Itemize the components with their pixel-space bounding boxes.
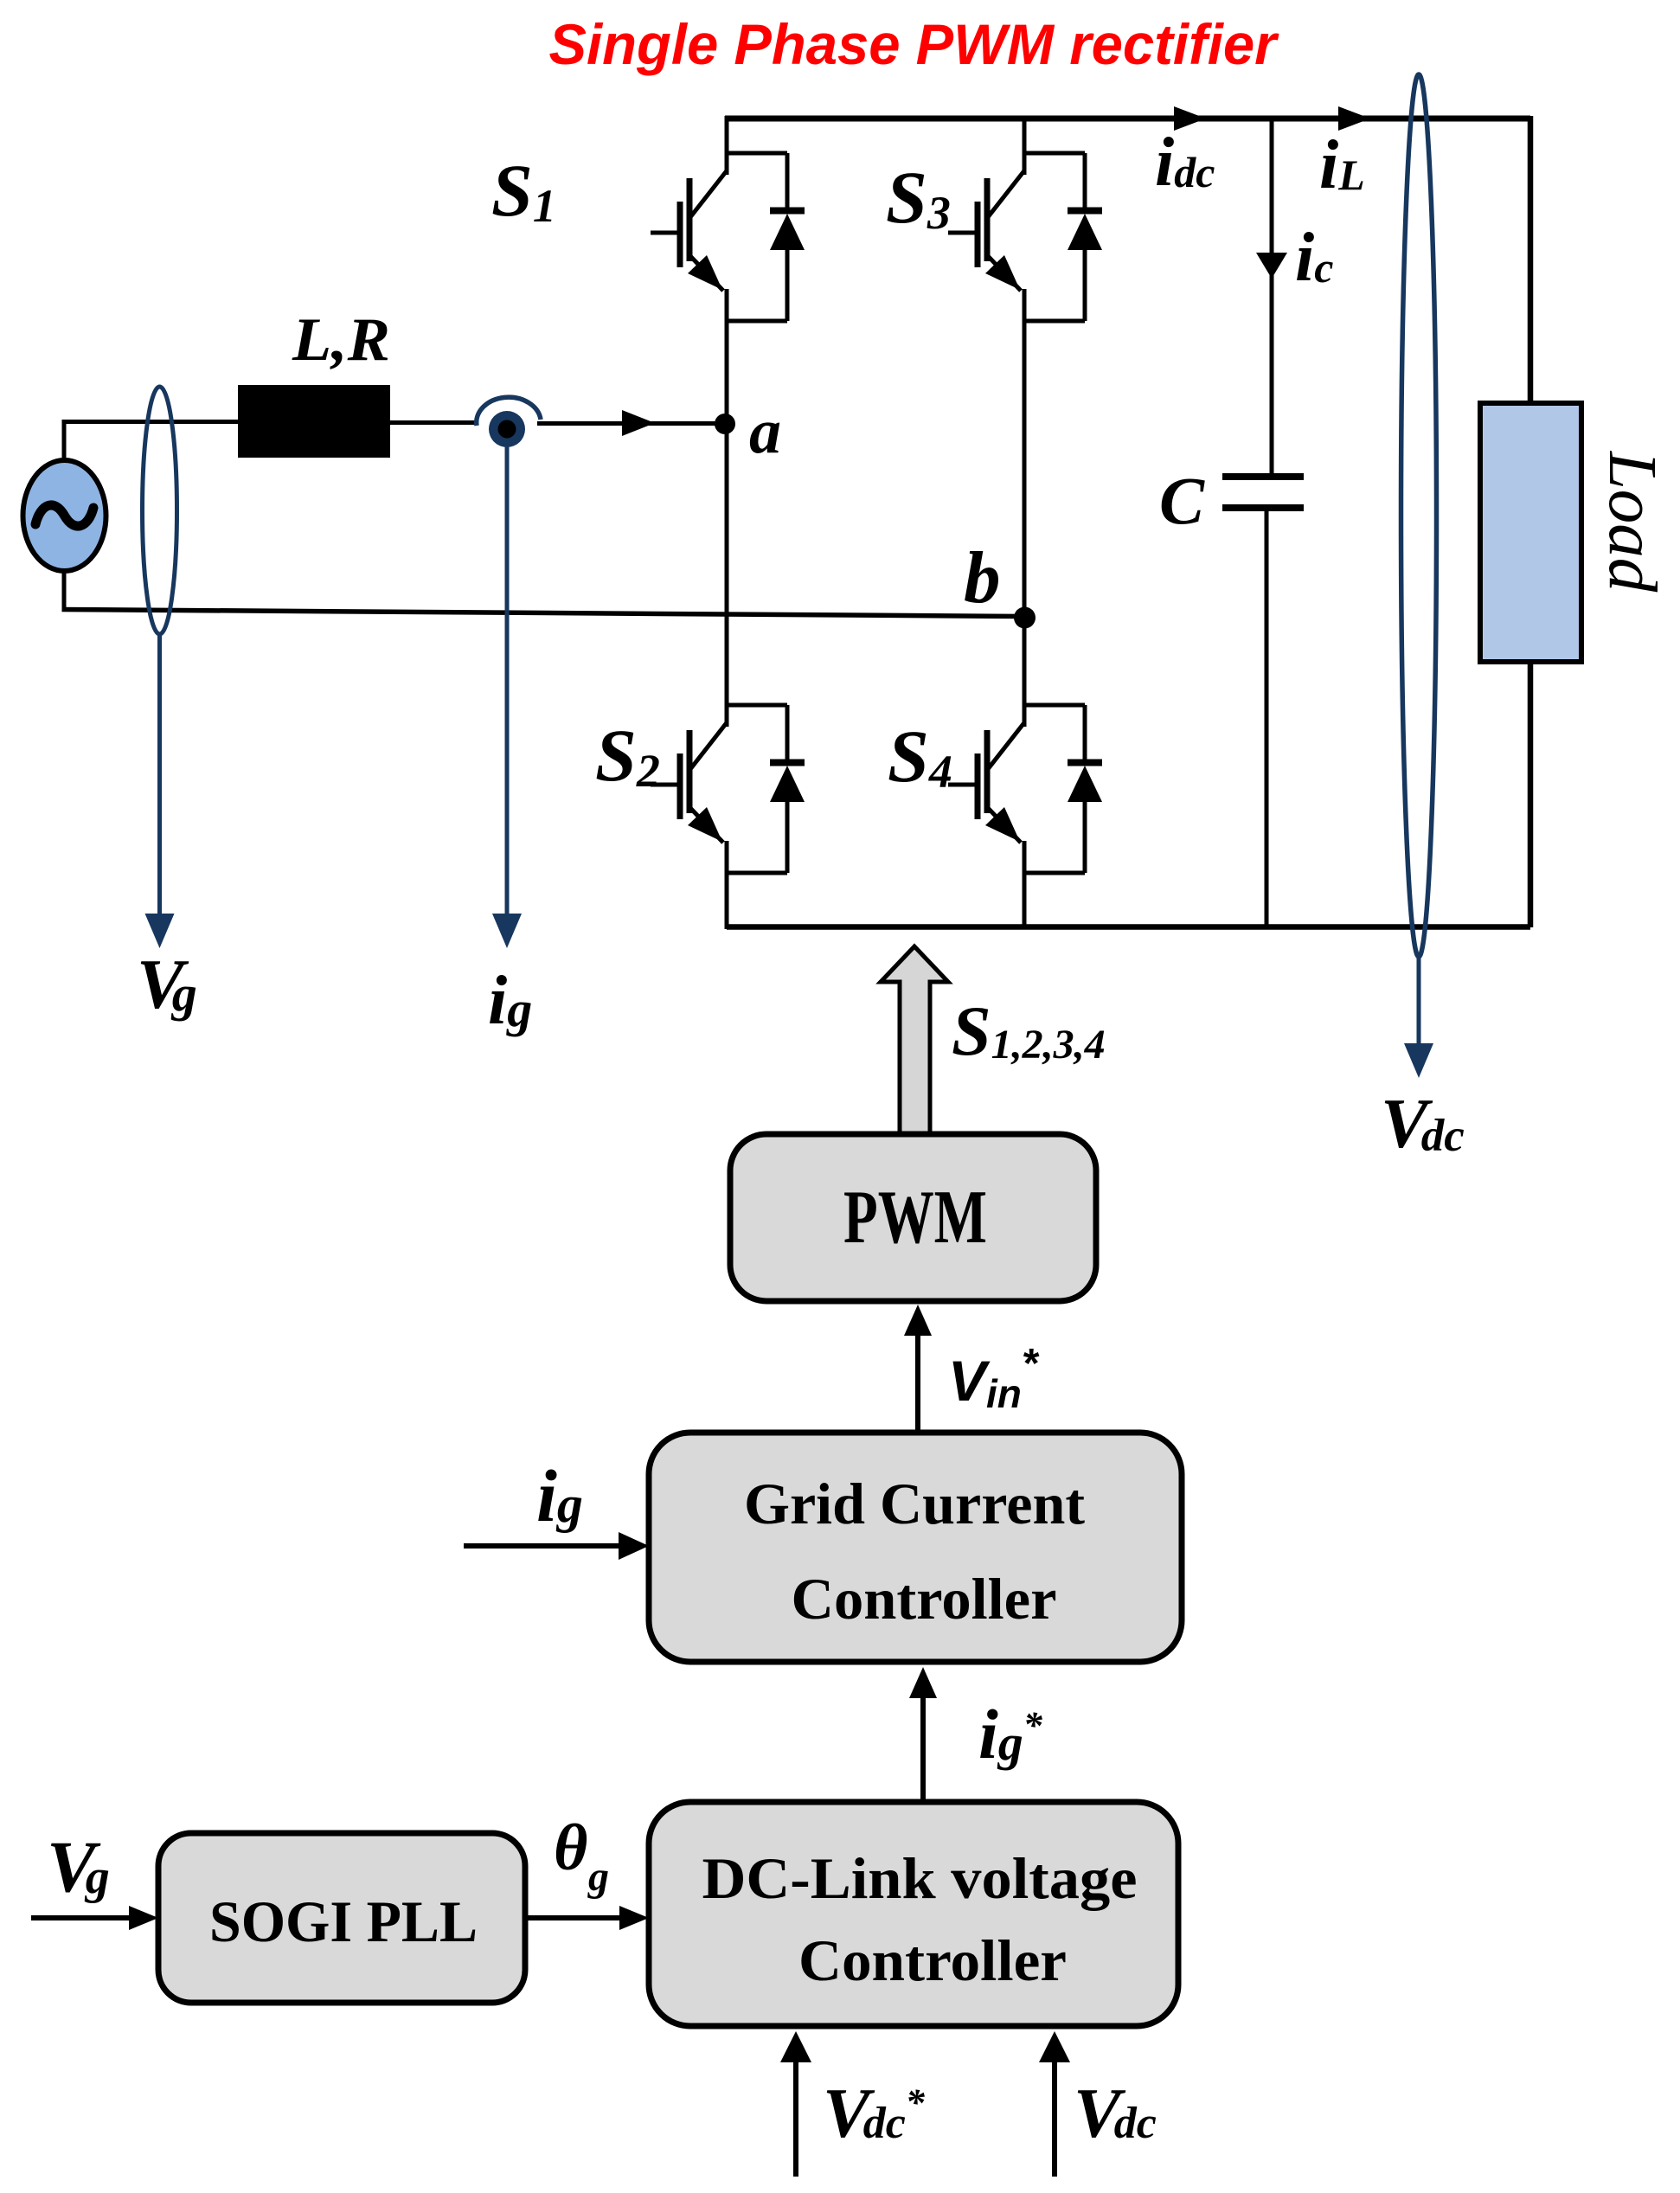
wire: left bridge leg upper — [725, 116, 729, 175]
wire: dc-link capacitor branch — [1270, 119, 1274, 476]
svg-text:θ: θ — [554, 1811, 587, 1884]
svg-text:Vdc: Vdc — [1074, 2074, 1157, 2152]
svg-text:Controller: Controller — [792, 1566, 1057, 1632]
wire: top AC line from source to inductor — [62, 420, 240, 424]
svg-text:Vin*: Vin* — [948, 1341, 1040, 1416]
node a — [715, 414, 735, 434]
wire: left bridge leg lower — [725, 841, 729, 929]
arrow Vin* from current controller to PWM — [915, 1334, 920, 1433]
arrow Vdc feedback input — [1052, 2061, 1057, 2177]
current sensor on grid current — [477, 397, 541, 447]
probe ellipse for Vg measurement — [143, 387, 177, 634]
svg-text:ig: ig — [536, 1454, 583, 1537]
wire: top bus right corner down to load — [1528, 116, 1534, 404]
svg-text:Vdc: Vdc — [1381, 1084, 1465, 1163]
svg-text:ig: ig — [488, 963, 532, 1039]
capacitor C plates — [1222, 477, 1304, 508]
Grid Current Controller block — [649, 1433, 1182, 1662]
inductor L,R — [238, 385, 390, 458]
svg-text:DC-Link voltage: DC-Link voltage — [702, 1845, 1138, 1911]
DC-Link voltage Controller block — [649, 1802, 1178, 2026]
wire: left bridge leg middle (through node a) — [725, 289, 729, 727]
svg-text:SOGI PLL: SOGI PLL — [209, 1888, 478, 1954]
svg-text:Controller: Controller — [798, 1927, 1067, 1993]
arrow ig input to current controller — [464, 1543, 620, 1549]
arrow theta_g from SOGI PLL to voltage controller — [525, 1915, 621, 1920]
arrow idc on top bus — [1174, 106, 1206, 131]
svg-text:Vdc*: Vdc* — [823, 2074, 926, 2152]
svg-text:L,R: L,R — [292, 306, 390, 374]
wire: right bridge leg upper — [1023, 116, 1027, 175]
svg-text:idc: idc — [1155, 125, 1215, 201]
svg-text:Vg: Vg — [137, 945, 197, 1023]
svg-text:S1,2,3,4: S1,2,3,4 — [952, 991, 1106, 1070]
node b — [1014, 607, 1036, 629]
wire: bottom AC line from source to node b — [62, 610, 1025, 617]
load resistor block — [1480, 403, 1581, 662]
svg-text:PWM: PWM — [843, 1176, 987, 1260]
arrow Vdc* reference input — [793, 2061, 798, 2177]
wire: load to bottom bus — [1528, 662, 1534, 927]
wire: right bridge leg middle (through node b) — [1023, 289, 1027, 727]
svg-text:a: a — [749, 396, 781, 467]
transistor S1 (IGBT with freewheeling diode) — [651, 153, 805, 321]
svg-text:Single Phase PWM rectifier: Single Phase PWM rectifier — [549, 12, 1279, 76]
AC grid source Vs — [23, 460, 106, 571]
wire: sensor to node a — [537, 421, 725, 426]
bottom DC bus — [727, 924, 1530, 930]
svg-text:b: b — [964, 537, 1001, 619]
transistor S2 (IGBT with freewheeling diode) — [651, 705, 805, 873]
svg-text:g: g — [587, 1854, 609, 1900]
svg-text:S2: S2 — [595, 714, 660, 797]
svg-text:Grid Current: Grid Current — [744, 1471, 1085, 1536]
wire: source bottom stub — [62, 570, 67, 611]
PWM block — [730, 1134, 1096, 1301]
svg-text:Load: Load — [1594, 451, 1670, 593]
svg-text:C: C — [1159, 463, 1205, 538]
arrow Vg input to SOGI PLL — [31, 1915, 131, 1920]
arrow iL on top bus — [1338, 106, 1370, 131]
svg-text:iL: iL — [1319, 127, 1365, 203]
wire: inductor to current sensor — [390, 420, 478, 425]
transistor S4 (IGBT with freewheeling diode) — [948, 705, 1102, 873]
arrow: Vdc measurement pointer — [1417, 957, 1421, 1045]
arrow: Vg measurement pointer — [157, 634, 162, 915]
wire: source top stub — [62, 421, 67, 461]
transistor S3 (IGBT with freewheeling diode) — [948, 153, 1102, 321]
svg-text:ic: ic — [1295, 220, 1333, 296]
svg-text:Vg: Vg — [47, 1826, 110, 1908]
svg-text:S4: S4 — [888, 715, 952, 798]
probe ellipse for Vdc measurement — [1401, 74, 1437, 957]
arrow: grid current direction into bridge — [622, 410, 655, 436]
SOGI PLL block — [158, 1833, 525, 2003]
arrow ig* reference from voltage controller — [920, 1696, 926, 1800]
svg-text:S1: S1 — [491, 149, 556, 232]
wire: right bridge leg lower — [1023, 841, 1027, 929]
svg-text:S3: S3 — [886, 156, 951, 239]
wire: capacitor to bottom bus — [1265, 511, 1269, 927]
arrow: ig measurement pointer — [505, 445, 510, 915]
gate drive block arrow from PWM to bridge — [881, 946, 948, 1134]
arrow ic — [1256, 253, 1287, 279]
svg-text:ig*: ig* — [978, 1695, 1043, 1773]
top DC bus — [725, 116, 1530, 122]
